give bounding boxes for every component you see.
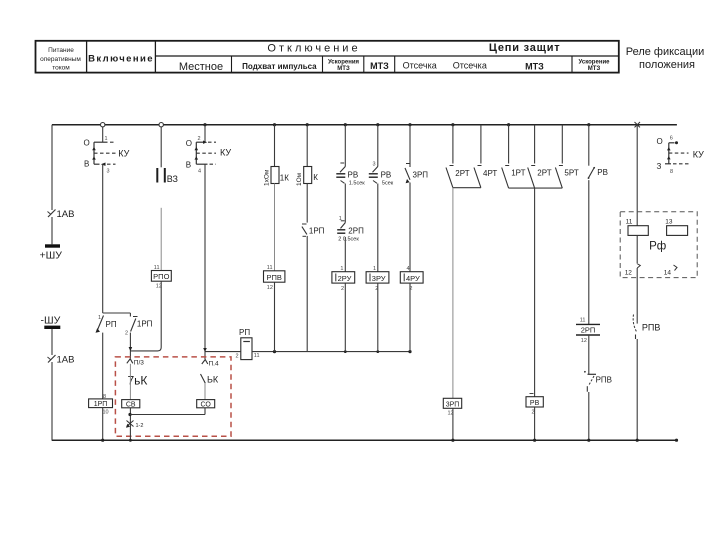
wire bus to 2РТ-а [452, 125, 454, 164]
svg-text:2РТ: 2РТ [537, 169, 551, 178]
wire bus to R1 [274, 125, 276, 167]
wire КУ1 down to РП node [102, 164, 104, 313]
svg-text:1: 1 [105, 136, 108, 142]
wire РПВ right to bus [636, 339, 639, 442]
svg-text:3РУ: 3РУ [372, 274, 386, 283]
svg-text:1РТ: 1РТ [511, 169, 525, 178]
wire ВЗ to РПО [160, 208, 162, 271]
svg-text:1-2: 1-2 [136, 423, 144, 429]
contact 2РТ (а) [446, 166, 470, 188]
svg-text:РП: РП [239, 328, 250, 337]
svg-text:током: током [52, 65, 70, 72]
svg-text:РВ: РВ [530, 400, 540, 407]
contact 2РП (time) [337, 216, 364, 242]
relay coil 2РП [576, 318, 600, 344]
wire bus to R2 [306, 125, 308, 167]
svg-text:МТЗ: МТЗ [370, 61, 389, 71]
node -ШУ [41, 315, 61, 330]
wire coil to contact 12 [636, 235, 638, 263]
svg-text:Реле фиксации: Реле фиксации [626, 46, 705, 58]
wire R2 to contact 1РП [306, 184, 308, 223]
node bus junction ВЗ (open circle) [159, 123, 163, 127]
svg-text:1РП: 1РП [94, 401, 108, 408]
wire R1 to РПВ coil [274, 184, 276, 271]
header table outer border [36, 41, 619, 73]
wire bus to ВЗ [160, 127, 162, 167]
svg-text:МТЗ: МТЗ [588, 66, 601, 72]
wire РВ1 to 2РП contact [344, 184, 346, 223]
wire П/4 node to РП coil [203, 348, 241, 352]
wire 4РУ to collector end [409, 283, 411, 352]
svg-text:8: 8 [670, 169, 673, 175]
breaker 1АВ upper [48, 209, 75, 220]
svg-text:положения: положения [639, 59, 695, 71]
svg-text:СО: СО [201, 401, 212, 408]
relay coil РПО (box) [151, 265, 171, 290]
svg-text:11: 11 [580, 318, 586, 324]
contact РП [96, 315, 117, 333]
wire РВ coil to bus [533, 407, 536, 442]
wire 4РТ branch from bus [480, 125, 482, 164]
svg-text:6: 6 [670, 136, 673, 142]
svg-text:РВ: РВ [348, 170, 359, 179]
contact РПВ (left) [584, 371, 612, 392]
wire СВ to node [128, 408, 132, 442]
svg-text:1Ом: 1Ом [296, 172, 303, 186]
header text Отсечка (2) [453, 61, 487, 71]
relay coil 2РУ (box) [332, 266, 355, 292]
header text Ускорения МТЗ [328, 60, 360, 73]
contact ЬК [201, 374, 219, 385]
svg-text:2: 2 [236, 354, 239, 360]
svg-text:КУ: КУ [118, 149, 129, 159]
svg-text:1АВ: 1АВ [57, 209, 75, 220]
wire node to СО (horizontal) [130, 414, 205, 416]
svg-text:1РП: 1РП [309, 226, 325, 235]
header text Включение [88, 54, 154, 65]
svg-text:РВ: РВ [381, 171, 392, 180]
wire bus to 5РТ [561, 125, 563, 164]
wire 1РП contact down with arrow [129, 333, 133, 352]
svg-text:РВ: РВ [597, 168, 608, 177]
contact 5РТ [555, 166, 578, 189]
header sub divider МТЗ/Отсечка [394, 56, 396, 73]
contact 3РП [405, 164, 428, 184]
wire ЬК to СО [204, 384, 206, 400]
wire РП coil to collector [252, 350, 412, 353]
svg-text:Подхват импульса: Подхват импульса [242, 62, 317, 71]
svg-text:Ускорение: Ускорение [579, 60, 611, 66]
wire bus to Рф [636, 125, 638, 226]
coil Рф pin13 [665, 218, 687, 235]
node bus junction Рф [635, 122, 641, 127]
svg-text:Отсечка: Отсечка [403, 61, 437, 71]
svg-text:З: З [657, 162, 662, 171]
svg-text:Местное: Местное [179, 61, 223, 73]
label Реле фиксации положения [626, 46, 705, 71]
wire contact 12 down [636, 268, 638, 324]
svg-text:оперативным: оперативным [40, 56, 81, 63]
svg-text:12: 12 [625, 270, 633, 277]
svg-text:11: 11 [254, 353, 260, 359]
header table divider col1/col2 [86, 41, 88, 73]
contact pin12 [625, 264, 641, 277]
header text Подхват импульса [242, 62, 317, 71]
wire 2РУ to collector [344, 283, 346, 352]
header sub divider Подхват/Ускорения [322, 56, 324, 73]
svg-text:5РТ: 5РТ [564, 169, 578, 178]
node bus junction РВ2 [376, 123, 379, 126]
svg-text:2РП: 2РП [348, 227, 364, 236]
wire РПО down and corner to П/3 node [130, 281, 161, 351]
header text Ускорение МТЗ [579, 60, 611, 73]
svg-text:В: В [84, 160, 89, 169]
node bus junction РВ contact [587, 123, 590, 126]
svg-text:КУ: КУ [220, 148, 231, 158]
header text МТЗ (1) [370, 61, 389, 71]
label Рф [649, 241, 666, 253]
header text МТЗ (2) [525, 62, 544, 72]
node bus junction 1РТ [507, 123, 510, 126]
node bus junction 3РП [408, 123, 411, 126]
svg-text:2: 2 [341, 286, 344, 292]
bottom bus (-) [52, 439, 678, 442]
node bus junction КУ2 [203, 123, 206, 126]
wire 2РП contact to 2РУ [344, 237, 346, 272]
svg-text:12: 12 [267, 285, 273, 291]
header text Отключение [267, 43, 360, 55]
svg-text:10: 10 [103, 410, 109, 416]
svg-text:4РУ: 4РУ [406, 274, 420, 283]
svg-text:1К: 1К [280, 173, 289, 182]
svg-text:В: В [186, 161, 191, 170]
dashed drive box (red) [115, 357, 231, 436]
wire bus to КУ2 [204, 125, 206, 143]
resistor 1К (R1) [264, 167, 290, 187]
svg-text:О: О [186, 139, 192, 148]
wire bus to 1РТ [508, 125, 510, 164]
wire node to 1РП branch [103, 312, 131, 314]
svg-text:3: 3 [107, 168, 110, 174]
wire П/3 to СВ [129, 364, 131, 400]
wire down to РВ coil [534, 188, 536, 397]
wire 3РП coil to bus [451, 408, 454, 442]
svg-text:4РТ: 4РТ [483, 169, 497, 178]
node bus junction РВ1 [344, 123, 347, 126]
svg-text:РПВ: РПВ [266, 273, 281, 282]
wire РПВ coil to collector [274, 282, 276, 351]
svg-text:РПВ: РПВ [642, 323, 660, 333]
svg-text:О: О [84, 138, 90, 147]
svg-text:Отсечка: Отсечка [453, 61, 487, 71]
svg-text:ВЗ: ВЗ [167, 174, 178, 184]
svg-text:1.5сек: 1.5сек [349, 180, 365, 186]
svg-text:-ШУ: -ШУ [41, 315, 61, 327]
header table horizontal row divider [155, 55, 618, 57]
svg-text:О: О [657, 137, 663, 146]
wire 1РП coil to bottom bus [101, 408, 104, 442]
svg-text:11: 11 [626, 218, 633, 225]
contact 1РП [125, 313, 153, 337]
svg-text:ЬК: ЬК [207, 375, 219, 385]
svg-text:2РП: 2РП [581, 326, 596, 335]
node +ШУ [40, 244, 63, 261]
node bus junction 2РТ-а [451, 123, 454, 126]
svg-text:2РТ: 2РТ [455, 169, 469, 178]
svg-text:14: 14 [664, 270, 672, 277]
wire into drive box П/3 [129, 351, 131, 358]
wire bus to РВ contact [588, 125, 590, 166]
svg-text:П/3: П/3 [134, 359, 144, 366]
contact 1РТ [502, 166, 526, 189]
svg-text:Включение: Включение [88, 54, 154, 65]
wire bus to 3РП contact [409, 125, 411, 167]
node bus junction КУ1 (open circle) [101, 123, 105, 127]
svg-text:1АВ: 1АВ [57, 355, 75, 366]
contact 4РТ [474, 166, 497, 188]
contact Н2 (aux) [126, 421, 143, 430]
wire left rail lower [51, 329, 53, 440]
wire РВ2 to 3РУ [377, 184, 379, 272]
wire РП to 1РП coil box [102, 333, 104, 399]
contact РВ 5сек (time) [369, 162, 394, 187]
wire join 2РТ/4РТ [453, 187, 481, 189]
svg-text:Ускорения: Ускорения [328, 60, 360, 66]
svg-text:3РП: 3РП [413, 171, 429, 180]
svg-text:1: 1 [98, 315, 101, 321]
svg-text:1РП: 1РП [137, 320, 153, 329]
svg-text:К: К [313, 173, 318, 182]
node bus junction R2 [306, 123, 309, 126]
contact ВЗ (two bars) [157, 168, 178, 184]
svg-text:1хОм: 1хОм [264, 169, 271, 186]
contact pin14 [664, 265, 677, 277]
header table divider col2/col3 [154, 41, 156, 73]
header sub divider МТЗ/Ускорение [571, 56, 573, 73]
relay coil 1РП (box) [89, 394, 113, 416]
svg-text:2: 2 [125, 331, 128, 337]
wire 3РУ to collector [377, 283, 379, 352]
solenoid СО (box) [197, 400, 215, 409]
svg-text:Отключение: Отключение [267, 43, 360, 55]
wire 2РП coil to РПВ contact [588, 335, 590, 374]
header text Отсечка (1) [403, 61, 437, 71]
svg-text:1: 1 [339, 216, 342, 222]
contact П/3 [127, 359, 144, 367]
svg-text:РПО: РПО [153, 272, 169, 281]
top bus (+) [52, 124, 677, 126]
contact 1РП (column 2) [302, 224, 325, 236]
node bus junction R1 [273, 123, 276, 126]
svg-text:12: 12 [581, 338, 587, 344]
header sub divider Местное/Подхват [231, 56, 233, 73]
coil Рф pin11 [626, 218, 649, 235]
contact П/4 [202, 360, 219, 368]
svg-text:РП: РП [106, 320, 117, 329]
wire bus to РВ2 [377, 125, 379, 167]
svg-text:Рф: Рф [649, 241, 666, 253]
wire bus to РВ1 [344, 125, 346, 167]
breaker 1АВ lower [48, 355, 75, 366]
wire contact 1РП to collector [306, 236, 308, 352]
relay coil 3РУ (box) [366, 266, 389, 292]
svg-text:+ШУ: +ШУ [40, 250, 63, 262]
relay coil 4РУ (box) [400, 266, 423, 292]
wire join 1РТ/2РТ/5РТ [509, 187, 563, 189]
wire down to 3РП coil [452, 188, 454, 399]
svg-text:СВ: СВ [126, 401, 136, 408]
wire left rail upper [51, 125, 53, 245]
svg-text:Цепи защит: Цепи защит [489, 42, 561, 54]
wire 3РП contact to 4РУ [409, 183, 411, 272]
key switch КУ2 [186, 136, 232, 175]
svg-text:2: 2 [198, 136, 201, 142]
relay coil РВ (box) [526, 394, 543, 416]
header text Местное [179, 61, 223, 73]
svg-text:КУ: КУ [693, 149, 704, 159]
wire bus to 2РТ-б [534, 125, 536, 164]
svg-text:П.4: П.4 [209, 360, 219, 367]
wire РПВ to bus [587, 392, 590, 442]
solenoid СВ (box) [122, 400, 140, 409]
wire КУ2 down to П/4 [204, 164, 206, 359]
header text Питание оперативным током [40, 47, 81, 72]
contact РПВ (right) [633, 315, 660, 340]
contact 2РТ (б) [528, 166, 552, 189]
wire СО to horizontal [204, 408, 206, 415]
relay coil РП [236, 328, 260, 360]
svg-text:2РУ: 2РУ [338, 274, 352, 283]
label 7ЬК [128, 374, 148, 388]
resistor 1Ом (R2) [296, 167, 318, 187]
svg-text:2 0.5сек: 2 0.5сек [338, 236, 359, 242]
svg-text:3РП: 3РП [446, 401, 460, 408]
key switch КУ1 [84, 136, 130, 175]
svg-text:4: 4 [198, 169, 201, 175]
svg-text:МТЗ: МТЗ [525, 62, 544, 72]
header text Цепи защит [489, 42, 561, 54]
wire bus to КУ1 [102, 127, 104, 142]
svg-text:МТЗ: МТЗ [337, 66, 350, 72]
wire РВ contact to 2РП coil [588, 180, 590, 324]
contact РВ 1.5сек (time) [336, 163, 365, 186]
svg-text:Питание: Питание [48, 47, 74, 54]
key switch КУ3 [657, 136, 705, 175]
relay Рф (dashed box) [620, 212, 697, 278]
svg-text:РПВ: РПВ [596, 376, 612, 385]
contact РВ (right) [588, 167, 608, 179]
relay coil 3РП (box) [443, 398, 461, 416]
svg-text:3: 3 [373, 162, 376, 168]
svg-text:13: 13 [665, 218, 673, 225]
relay coil РПВ (box) [264, 265, 285, 291]
header sub divider Ускорения/МТЗ [363, 56, 365, 73]
svg-text:5сек: 5сек [382, 180, 394, 186]
